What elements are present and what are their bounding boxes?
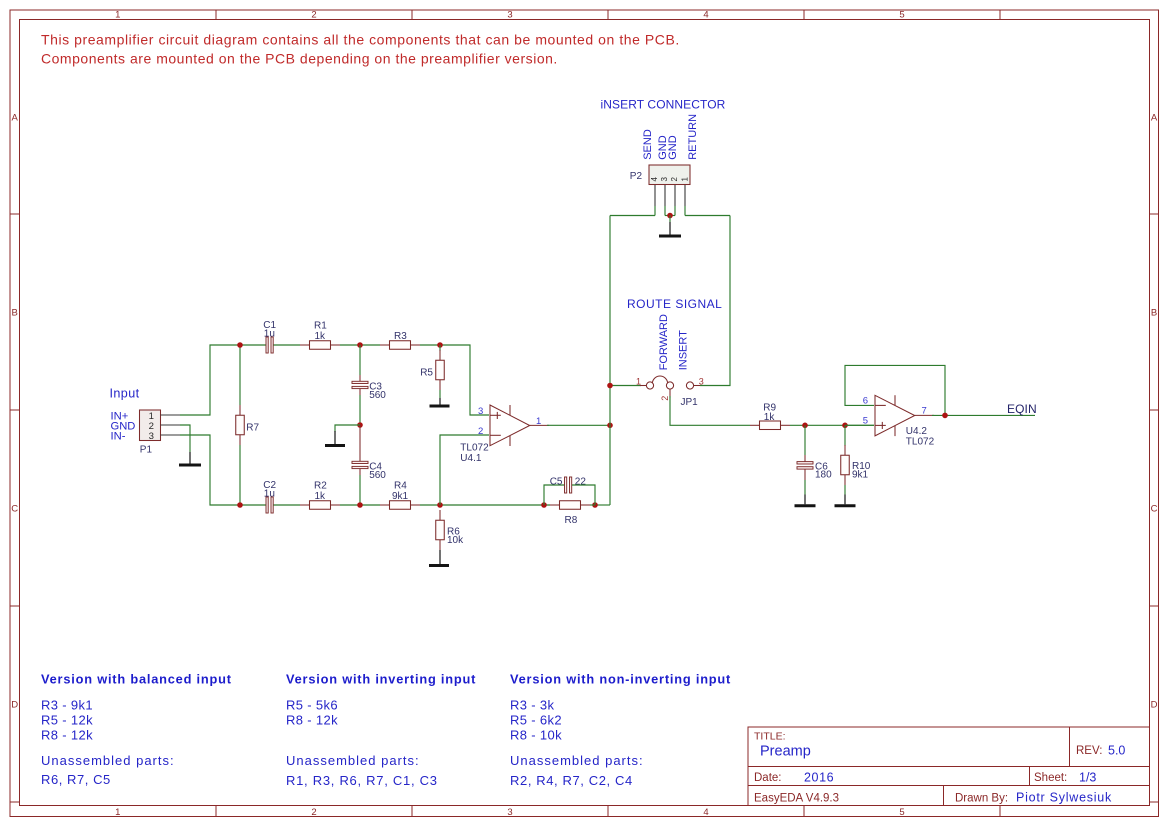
P1 pin 1 stub: [161, 414, 181, 416]
ruler ticks bottom: [216, 806, 1000, 817]
P2 pin 3 stub: [664, 185, 666, 216]
wire gnd join: [665, 215, 675, 217]
svg-text:R3: R3: [394, 331, 407, 342]
wire R9 to opamp: [790, 424, 874, 426]
wire C2 to R2: [274, 504, 301, 506]
label C4: [369, 462, 386, 482]
resistor R8: [550, 501, 590, 510]
junction top rail C3: [357, 342, 363, 348]
P1 pin 2 stub: [161, 424, 181, 426]
ruler letters left: [11, 112, 18, 710]
svg-text:Sheet:: Sheet:: [1034, 772, 1067, 784]
label U4.2 pin 7: [922, 405, 927, 416]
svg-text:1/3: 1/3: [1079, 771, 1096, 785]
wire return vertical: [700, 216, 730, 386]
op-amp U4.1: [490, 405, 549, 446]
svg-text:7: 7: [922, 405, 927, 416]
label U4.1 TL072: [460, 443, 489, 464]
svg-text:Drawn By:: Drawn By:: [955, 793, 1008, 805]
svg-text:This preamplifier circuit diag: This preamplifier circuit diagram contai…: [41, 32, 680, 48]
resistor R5: [436, 345, 445, 390]
svg-text:JP1: JP1: [681, 397, 699, 408]
svg-text:C5: C5: [550, 476, 563, 487]
wire output node to bottom rail: [595, 504, 610, 506]
svg-text:560: 560: [369, 390, 386, 401]
label C2: [263, 480, 276, 500]
svg-text:R1: R1: [314, 321, 327, 332]
jumper JP1: [640, 376, 700, 398]
label IN-: [111, 431, 126, 443]
resistor R1: [300, 341, 340, 350]
svg-text:R5: R5: [420, 367, 433, 378]
ruler ticks left: [10, 214, 20, 802]
resistor R3: [380, 341, 420, 350]
note text top: [41, 32, 680, 67]
svg-text:R3 - 9k1: R3 - 9k1: [41, 698, 93, 713]
wire output node vertical: [609, 216, 611, 506]
svg-text:1u: 1u: [264, 489, 275, 500]
svg-text:P2: P2: [630, 171, 643, 182]
svg-text:R1, R3, R6, R7, C1, C3: R1, R3, R6, R7, C1, C3: [286, 773, 438, 788]
label R9: [763, 402, 776, 422]
ruler numbers bottom: [115, 807, 904, 818]
label U4.2: [906, 426, 935, 448]
label U4.1 pin 3: [478, 406, 483, 417]
svg-text:B: B: [1151, 308, 1157, 319]
label C6: [815, 462, 832, 481]
svg-text:R6, R7, C5: R6, R7, C5: [41, 772, 111, 787]
label U4.1 pin 1: [536, 416, 541, 427]
capacitor C5: [565, 477, 572, 493]
wire C3 drop: [359, 345, 361, 375]
junction output node: [607, 423, 613, 429]
svg-text:3: 3: [699, 376, 704, 386]
label U4.1 pin 2: [478, 426, 483, 437]
svg-text:4: 4: [703, 807, 708, 818]
wire R8 right: [590, 504, 595, 506]
svg-text:Version with non-inverting inp: Version with non-inverting input: [510, 672, 731, 687]
label GND: [111, 421, 136, 433]
wire mid junction to ground: [335, 425, 360, 432]
wire R4 to R8: [420, 504, 550, 506]
label U4.2 pin 5: [863, 416, 868, 427]
wire U4.2 output: [932, 414, 1035, 416]
wire P1 pin3 to bottom rail: [180, 435, 266, 505]
title block: [748, 727, 1150, 806]
junction P2 gnd: [667, 213, 673, 219]
svg-text:4: 4: [650, 177, 659, 182]
wire C1 to R1: [274, 344, 301, 346]
wire return rail: [685, 215, 730, 217]
capacitor C1: [266, 337, 273, 353]
svg-text:3: 3: [149, 431, 154, 442]
svg-text:INSERT: INSERT: [678, 330, 690, 370]
svg-text:B: B: [12, 308, 18, 319]
version notes column 1: [41, 672, 232, 788]
wire P1 pin2 to ground: [180, 425, 190, 452]
label R8: [565, 515, 578, 526]
svg-text:9k1: 9k1: [852, 470, 869, 481]
svg-text:1: 1: [680, 177, 689, 182]
svg-text:R3 - 3k: R3 - 3k: [510, 698, 555, 713]
svg-text:TITLE:: TITLE:: [754, 731, 786, 743]
svg-text:2: 2: [311, 10, 316, 21]
svg-text:C: C: [11, 504, 18, 515]
svg-text:R8 - 10k: R8 - 10k: [510, 728, 562, 743]
svg-text:1: 1: [115, 807, 120, 818]
net label INSERT: [678, 330, 690, 370]
wire U4.1 inverting input: [440, 435, 489, 505]
svg-text:560: 560: [369, 470, 386, 481]
svg-text:3: 3: [507, 10, 512, 21]
ruler letters right: [1151, 112, 1158, 710]
label C1: [263, 320, 276, 340]
ground at R10: [835, 485, 856, 506]
svg-text:9k1: 9k1: [392, 491, 409, 502]
svg-text:1: 1: [636, 376, 641, 386]
svg-text:3: 3: [507, 807, 512, 818]
junction bottom rail R6: [437, 502, 443, 508]
resistor R10: [841, 425, 850, 485]
label R7: [246, 423, 259, 434]
svg-text:R2, R4, R7, C2, C4: R2, R4, R7, C2, C4: [510, 773, 633, 788]
svg-text:180: 180: [815, 470, 832, 481]
wire JP1 pin2 down: [670, 396, 750, 425]
label Input: [110, 387, 140, 401]
wire P1 pin1 to top rail: [180, 345, 266, 415]
resistor R6: [436, 510, 445, 550]
svg-text:1: 1: [536, 416, 541, 427]
svg-text:22: 22: [575, 476, 587, 487]
wire R3 to corner: [420, 345, 489, 415]
junction bottom rail C4: [357, 502, 363, 508]
svg-text:Input: Input: [110, 387, 140, 401]
net label GND pin2: [667, 135, 679, 160]
svg-text:3: 3: [660, 177, 669, 182]
ruler ticks top: [216, 10, 1000, 20]
net label SEND: [642, 129, 654, 160]
svg-text:2: 2: [660, 396, 670, 401]
svg-text:R7: R7: [246, 423, 259, 434]
wire R1 to R3: [340, 344, 380, 346]
P1 pin 3 stub: [161, 434, 181, 436]
label JP1 pin 3: [699, 376, 704, 386]
svg-text:ROUTE SIGNAL: ROUTE SIGNAL: [627, 297, 722, 311]
capacitor C6: [797, 425, 813, 475]
capacitor C2: [266, 497, 273, 513]
svg-text:D: D: [1151, 700, 1158, 711]
wire C3 to junction: [359, 395, 361, 425]
connector P2: [649, 165, 690, 185]
junction top rail R7: [237, 342, 243, 348]
capacitor C3: [352, 375, 368, 395]
svg-text:U4.2: U4.2: [906, 426, 928, 437]
wire U4.2 feedback: [845, 365, 945, 415]
wire R7 bottom: [239, 445, 241, 505]
capacitor C4: [352, 425, 368, 475]
P2 pin 1 stub: [684, 185, 686, 216]
svg-text:RETURN: RETURN: [687, 114, 699, 160]
svg-text:1: 1: [115, 10, 120, 21]
svg-text:SEND: SEND: [642, 129, 654, 160]
svg-text:Piotr Sylwesiuk: Piotr Sylwesiuk: [1016, 791, 1112, 805]
ground at R5: [430, 390, 450, 406]
ground at P1: [179, 452, 201, 465]
wire C5 branch left: [544, 485, 565, 505]
svg-text:2: 2: [311, 807, 316, 818]
junction at JP1 left: [607, 383, 613, 389]
wire C4 to bottom rail: [359, 475, 361, 505]
label JP1 pin 1: [636, 376, 641, 386]
title block texts: [754, 731, 1125, 805]
wire send rail: [610, 215, 655, 217]
svg-text:IN-: IN-: [111, 431, 126, 443]
label R5: [420, 367, 433, 378]
svg-text:GND: GND: [667, 135, 679, 160]
ground at P2: [659, 216, 681, 237]
wire U4.2 noninverting: [845, 424, 874, 426]
label R4: [392, 481, 409, 502]
label R2: [314, 481, 327, 502]
svg-text:5: 5: [863, 416, 868, 427]
label R6: [447, 527, 464, 547]
svg-text:A: A: [1151, 112, 1158, 123]
svg-text:Preamp: Preamp: [760, 744, 811, 760]
junction top rail R5: [437, 342, 443, 348]
svg-text:2016: 2016: [804, 771, 834, 785]
junction bottom rail C5 left: [541, 502, 547, 508]
svg-text:R2: R2: [314, 481, 327, 492]
svg-text:R4: R4: [394, 481, 407, 492]
svg-text:1u: 1u: [264, 329, 275, 340]
svg-text:EQIN: EQIN: [1007, 402, 1037, 416]
svg-text:P1: P1: [140, 444, 153, 455]
resistor R4: [380, 501, 420, 510]
svg-text:Unassembled parts:: Unassembled parts:: [510, 753, 644, 768]
svg-text:4: 4: [703, 10, 708, 21]
svg-text:Components are mounted on the: Components are mounted on the PCB depend…: [41, 51, 558, 67]
junction U4.2 output: [942, 413, 948, 419]
ruler numbers top: [115, 10, 904, 21]
label JP1 pin 2: [660, 396, 670, 401]
junction R10: [842, 423, 848, 429]
junction bottom rail C5 right: [592, 502, 598, 508]
label P1: [140, 444, 153, 455]
label C3: [369, 382, 386, 402]
svg-text:1k: 1k: [315, 331, 327, 342]
svg-text:REV:: REV:: [1076, 745, 1102, 757]
svg-text:EasyEDA V4.9.3: EasyEDA V4.9.3: [754, 793, 839, 805]
svg-text:R5 - 12k: R5 - 12k: [41, 713, 93, 728]
label U4.2 pin 6: [863, 396, 868, 407]
svg-text:Unassembled parts:: Unassembled parts:: [286, 753, 420, 768]
label JP1: [681, 397, 699, 408]
ground mid: [325, 431, 345, 446]
net label EQIN: [1007, 402, 1037, 416]
version notes column 2: [286, 672, 476, 789]
label IN+: [111, 411, 129, 423]
svg-text:1k: 1k: [764, 412, 776, 423]
version notes column 3: [510, 672, 731, 789]
wire R2 to R4: [340, 504, 380, 506]
net label GND pin3: [657, 135, 669, 160]
svg-text:5: 5: [899, 807, 904, 818]
svg-text:6: 6: [863, 396, 868, 407]
svg-text:R5 - 5k6: R5 - 5k6: [286, 698, 338, 713]
wire C5 branch right: [572, 485, 595, 505]
svg-text:TL072: TL072: [906, 437, 935, 448]
connector P1: [140, 410, 161, 442]
svg-text:R5 - 6k2: R5 - 6k2: [510, 713, 562, 728]
svg-text:D: D: [11, 700, 18, 711]
svg-text:Version with balanced input: Version with balanced input: [41, 672, 232, 687]
net label RETURN: [687, 114, 699, 160]
svg-text:2: 2: [670, 177, 679, 182]
resistor R9: [750, 421, 790, 430]
junction bottom rail R7: [237, 502, 243, 508]
label iNSERT CONNECTOR: [601, 98, 726, 112]
resistor R2: [300, 501, 340, 510]
svg-text:10k: 10k: [447, 535, 464, 546]
svg-text:5: 5: [899, 10, 904, 21]
wire R7 top: [239, 345, 241, 405]
label ROUTE SIGNAL: [627, 297, 722, 311]
svg-text:Unassembled parts:: Unassembled parts:: [41, 753, 175, 768]
svg-text:3: 3: [478, 406, 483, 417]
P2 pin 2 stub: [674, 185, 676, 216]
wire U4.1 output: [547, 424, 610, 426]
label R3: [394, 331, 407, 342]
svg-text:U4.1: U4.1: [460, 453, 482, 464]
svg-text:R8: R8: [565, 515, 578, 526]
svg-text:iNSERT CONNECTOR: iNSERT CONNECTOR: [601, 98, 726, 112]
svg-text:FORWARD: FORWARD: [658, 314, 670, 370]
svg-text:2: 2: [478, 426, 483, 437]
svg-text:1k: 1k: [315, 491, 327, 502]
resistor R7: [236, 405, 245, 445]
label C5: [550, 476, 587, 487]
svg-text:A: A: [12, 112, 19, 123]
svg-text:R8 - 12k: R8 - 12k: [286, 713, 338, 728]
svg-text:TL072: TL072: [460, 443, 489, 454]
svg-text:5.0: 5.0: [1108, 744, 1125, 758]
net label FORWARD: [658, 314, 670, 370]
ground at C6: [795, 475, 816, 506]
label R1: [314, 321, 327, 342]
op-amp U4.2: [875, 395, 934, 436]
P2 pin 4 stub: [654, 185, 656, 216]
label P2: [630, 171, 643, 182]
label R10: [852, 461, 871, 481]
svg-text:Date:: Date:: [754, 772, 782, 784]
svg-text:Version with inverting input: Version with inverting input: [286, 672, 476, 687]
ruler ticks right: [1150, 214, 1159, 802]
junction mid C3 C4: [357, 422, 363, 428]
svg-text:C: C: [1151, 504, 1158, 515]
wire junction to JP1 pin1: [610, 385, 641, 387]
junction C6: [802, 423, 808, 429]
ground at R6: [429, 550, 449, 566]
svg-text:R8 - 12k: R8 - 12k: [41, 728, 93, 743]
